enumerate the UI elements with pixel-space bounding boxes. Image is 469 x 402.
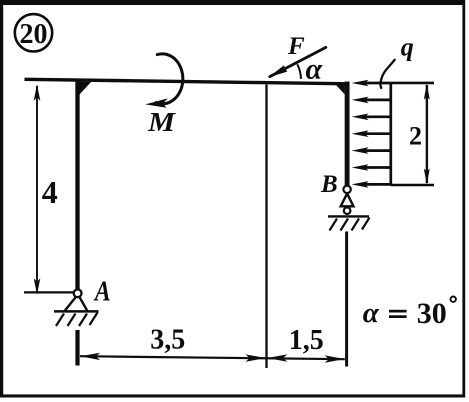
svg-text:α: α (305, 52, 322, 85)
svg-text:3,5: 3,5 (150, 325, 185, 356)
svg-text:M: M (147, 107, 176, 137)
svg-text:2: 2 (409, 122, 422, 151)
svg-text:20: 20 (20, 19, 48, 50)
svg-text:q: q (401, 32, 414, 61)
svg-text:A: A (93, 276, 111, 308)
svg-text:α: α (363, 297, 380, 329)
svg-text:4: 4 (42, 174, 58, 210)
svg-text:B: B (320, 171, 338, 198)
svg-text:1,5: 1,5 (289, 325, 324, 356)
svg-text:F: F (287, 33, 305, 60)
svg-text:30: 30 (417, 297, 447, 330)
